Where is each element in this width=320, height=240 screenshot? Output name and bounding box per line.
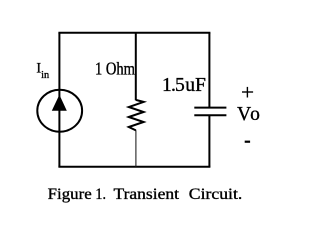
label plus sign (Vo polarity +) : vertical stroke bbox=[246, 87, 248, 98]
wire: middle branch upper vertical (top rail to resistor) bbox=[135, 33, 137, 100]
wire: right branch lower vertical (capacitor to bottom rail) bbox=[208, 115, 210, 167]
label minus sign (Vo polarity -) bbox=[245, 141, 250, 143]
capacitor C (1.5uF): top plate bbox=[194, 107, 226, 109]
svg-text:uF: uF bbox=[185, 75, 206, 96]
wire: top horizontal rail bbox=[59, 32, 209, 34]
wire: middle branch lower thin vertical (resistor to bottom rail) bbox=[135, 130, 137, 167]
capacitor C (1.5uF): bottom plate bbox=[194, 114, 226, 116]
svg-text:1 Ohm: 1 Ohm bbox=[95, 58, 135, 78]
wire: left branch vertical (through current source) bbox=[58, 33, 60, 167]
svg-text:Circuit.: Circuit. bbox=[189, 186, 243, 203]
svg-text:Iin: Iin bbox=[36, 61, 49, 82]
svg-text:Transient: Transient bbox=[114, 186, 180, 203]
svg-text:Figure: Figure bbox=[48, 186, 92, 203]
svg-text:1.5: 1.5 bbox=[162, 75, 185, 96]
current source Iin: arrowhead (pointing up) bbox=[52, 95, 67, 111]
resistor R (1 Ohm): zigzag bbox=[129, 100, 144, 130]
wire: bottom horizontal rail bbox=[59, 166, 209, 168]
svg-text:Vo: Vo bbox=[237, 104, 261, 125]
current source Iin: circle bbox=[37, 90, 82, 132]
label plus sign (Vo polarity +) : horizontal stroke bbox=[242, 91, 253, 93]
svg-text:1.: 1. bbox=[95, 186, 106, 203]
wire: right branch upper vertical (top rail to capacitor) bbox=[208, 33, 210, 109]
